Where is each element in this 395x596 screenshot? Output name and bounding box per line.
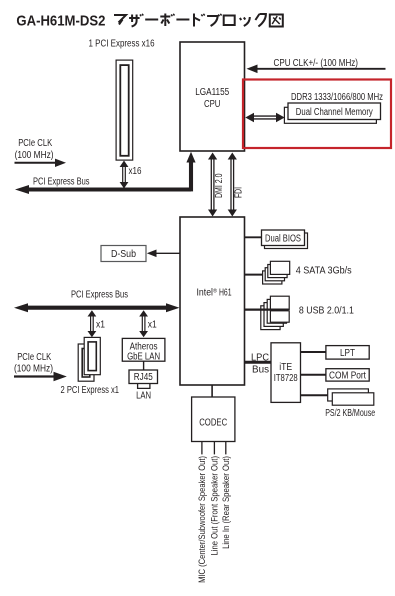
svg-text:(100 MHz): (100 MHz) <box>14 364 53 375</box>
svg-text:x16: x16 <box>129 166 142 177</box>
Dual BIOS box shadow <box>265 233 308 249</box>
wire iTE to LPT <box>301 351 326 353</box>
svg-text:Dual Channel Memory: Dual Channel Memory <box>296 107 373 118</box>
svg-text:COM Port: COM Port <box>329 370 366 381</box>
svg-text:FDI: FDI <box>234 187 245 198</box>
wire CODEC mic out <box>201 442 203 455</box>
CPU box U1 <box>180 42 245 151</box>
ザ <box>129 14 143 27</box>
ク <box>255 14 266 27</box>
D-Sub box <box>101 246 146 262</box>
ッ <box>240 17 250 26</box>
PCI Express x1 slot back <box>78 344 94 381</box>
svg-text:DDR3 1333/1066/800 MHz: DDR3 1333/1066/800 MHz <box>291 92 383 103</box>
dual channel memory box shadow <box>284 107 376 123</box>
svg-text:PCI Express Bus: PCI Express Bus <box>71 290 128 301</box>
svg-text:PS/2 KB/Mouse: PS/2 KB/Mouse <box>325 408 375 419</box>
svg-text:GA-H61M-DS2: GA-H61M-DS2 <box>16 12 105 29</box>
svg-text:x1: x1 <box>96 319 105 330</box>
wire iTE to PS/2 <box>301 394 328 396</box>
図 <box>270 15 283 27</box>
wire CODEC line out <box>213 442 215 455</box>
chipset box Intel H61 <box>180 217 245 385</box>
PCI Express x16 slot <box>116 60 133 160</box>
USB connector stack <box>261 296 289 329</box>
x1 double arrow right <box>139 310 148 337</box>
red highlight box <box>243 80 391 149</box>
svg-text:CPU: CPU <box>204 99 221 110</box>
svg-text:Line In (Rear Speaker Out): Line In (Rear Speaker Out) <box>221 456 232 549</box>
CODEC box <box>192 397 235 442</box>
svg-text:IT8728: IT8728 <box>274 373 298 384</box>
svg-text:RJ45: RJ45 <box>134 372 153 383</box>
wire Atheros to RJ45 <box>143 361 145 370</box>
ー <box>145 19 158 21</box>
ボ <box>160 14 174 27</box>
svg-text:Line Out (Front Speaker Out): Line Out (Front Speaker Out) <box>210 456 221 556</box>
マ <box>114 15 126 25</box>
wire H61 to CODEC <box>211 385 213 397</box>
wire iTE to COM <box>301 374 326 376</box>
ー <box>176 19 189 21</box>
PS/2 box front <box>332 393 374 405</box>
svg-text:GbE LAN: GbE LAN <box>127 352 160 363</box>
svg-text:Bus: Bus <box>252 364 269 375</box>
wire H61 to USB <box>245 309 289 311</box>
PS/2 box back <box>328 389 369 401</box>
dual channel memory box <box>288 103 381 120</box>
x16 double arrow <box>120 161 129 189</box>
svg-text:LPT: LPT <box>340 348 355 359</box>
title katakana マザーボードブロック図 <box>114 14 283 27</box>
LAN controller box Atheros GbE LAN <box>122 338 165 361</box>
svg-text:PCIe CLK: PCIe CLK <box>17 352 51 363</box>
svg-text:x1: x1 <box>148 319 157 330</box>
x1 double arrow left <box>88 310 97 337</box>
wire LPC bus <box>245 361 272 364</box>
svg-text:PCIe CLK: PCIe CLK <box>18 138 52 149</box>
D-Sub arrow <box>147 250 180 258</box>
svg-text:4 SATA 3Gb/s: 4 SATA 3Gb/s <box>296 265 352 276</box>
svg-text:CODEC: CODEC <box>199 417 227 428</box>
super IO box iTE IT8728 <box>271 343 301 403</box>
PCI Express x1 slot front <box>84 337 100 374</box>
ド <box>194 14 205 27</box>
COM Port box <box>326 369 369 381</box>
ロ <box>224 16 235 26</box>
RJ45 box <box>129 370 158 384</box>
wire PCI Express bus middle <box>14 303 180 312</box>
wire H61 to Dual BIOS <box>245 236 262 238</box>
LPT box <box>326 346 369 360</box>
svg-text:LAN: LAN <box>136 391 151 402</box>
svg-text:8 USB 2.0/1.1: 8 USB 2.0/1.1 <box>299 305 354 316</box>
CPU CLK arrow <box>247 65 386 74</box>
svg-text:PCI Express Bus: PCI Express Bus <box>33 176 90 187</box>
svg-text:Dual BIOS: Dual BIOS <box>265 234 301 245</box>
SATA connector stack <box>263 261 290 284</box>
PCIe CLK arrow upper <box>15 159 67 167</box>
Dual BIOS box <box>262 230 305 246</box>
FDI double arrow <box>228 153 237 217</box>
ブ <box>207 14 222 26</box>
svg-text:iTE: iTE <box>279 362 292 373</box>
svg-text:(100 MHz): (100 MHz) <box>15 150 54 161</box>
PCIe CLK arrow lower <box>14 372 67 381</box>
svg-text:MIC (Center/Subwoofer Speaker: MIC (Center/Subwoofer Speaker Out) <box>197 456 208 583</box>
wire PCI Express bus top <box>15 152 196 194</box>
wire CODEC line in <box>225 442 227 455</box>
svg-text:D-Sub: D-Sub <box>111 249 136 260</box>
LAN connector <box>138 384 150 389</box>
svg-text:2 PCI Express x1: 2 PCI Express x1 <box>61 385 120 396</box>
svg-text:1 PCI Express x16: 1 PCI Express x16 <box>89 39 155 50</box>
svg-text:DMI 2.0: DMI 2.0 <box>214 173 225 198</box>
svg-text:LGA1155: LGA1155 <box>195 87 229 98</box>
svg-text:CPU CLK+/- (100 MHz): CPU CLK+/- (100 MHz) <box>274 58 359 69</box>
wire H61 to SATA <box>245 274 264 276</box>
memory double arrow <box>245 113 284 122</box>
DMI 2.0 double arrow <box>208 153 217 217</box>
